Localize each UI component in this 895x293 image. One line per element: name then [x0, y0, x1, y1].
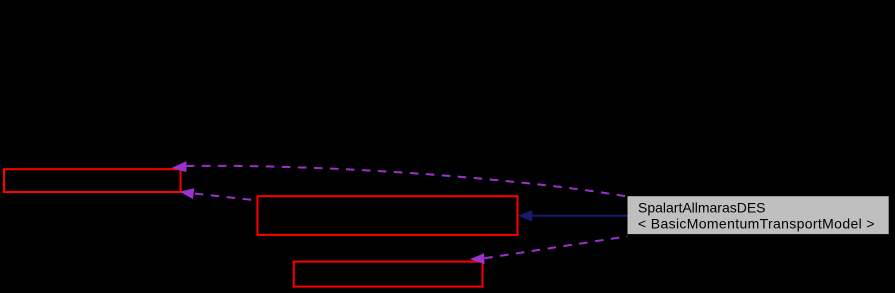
svg-text:SpalartAllmarasDES: SpalartAllmarasDES	[638, 200, 766, 216]
node: grey current-class box SpalartAllmarasDES	[628, 196, 889, 234]
node: red class box bottom (box3)	[294, 262, 483, 287]
node: red class box middle (box2)	[257, 196, 517, 235]
arrowhead: purple at box1 bottom-right	[180, 188, 195, 199]
arrowhead: purple at box3 top-right	[470, 253, 485, 264]
arrowhead: midnightblue at box2 right edge	[518, 210, 532, 222]
svg-text:< BasicMomentumTransportModel: < BasicMomentumTransportModel >	[638, 215, 875, 231]
edge: dashed usage arrow from grey box top-left to box1 top-right (spline)	[186, 166, 628, 197]
arrowhead: purple at box1 top-right	[171, 161, 186, 172]
node: red class box top-left (box1)	[4, 169, 181, 192]
edge: dashed usage arrow from box2 left edge to box1 bottom-right	[195, 194, 258, 201]
edge: solid inheritance arrow from grey box left to box2 right	[532, 215, 628, 217]
edge: dashed usage arrow from grey box bottom-left to box3 top-right	[484, 236, 627, 258]
